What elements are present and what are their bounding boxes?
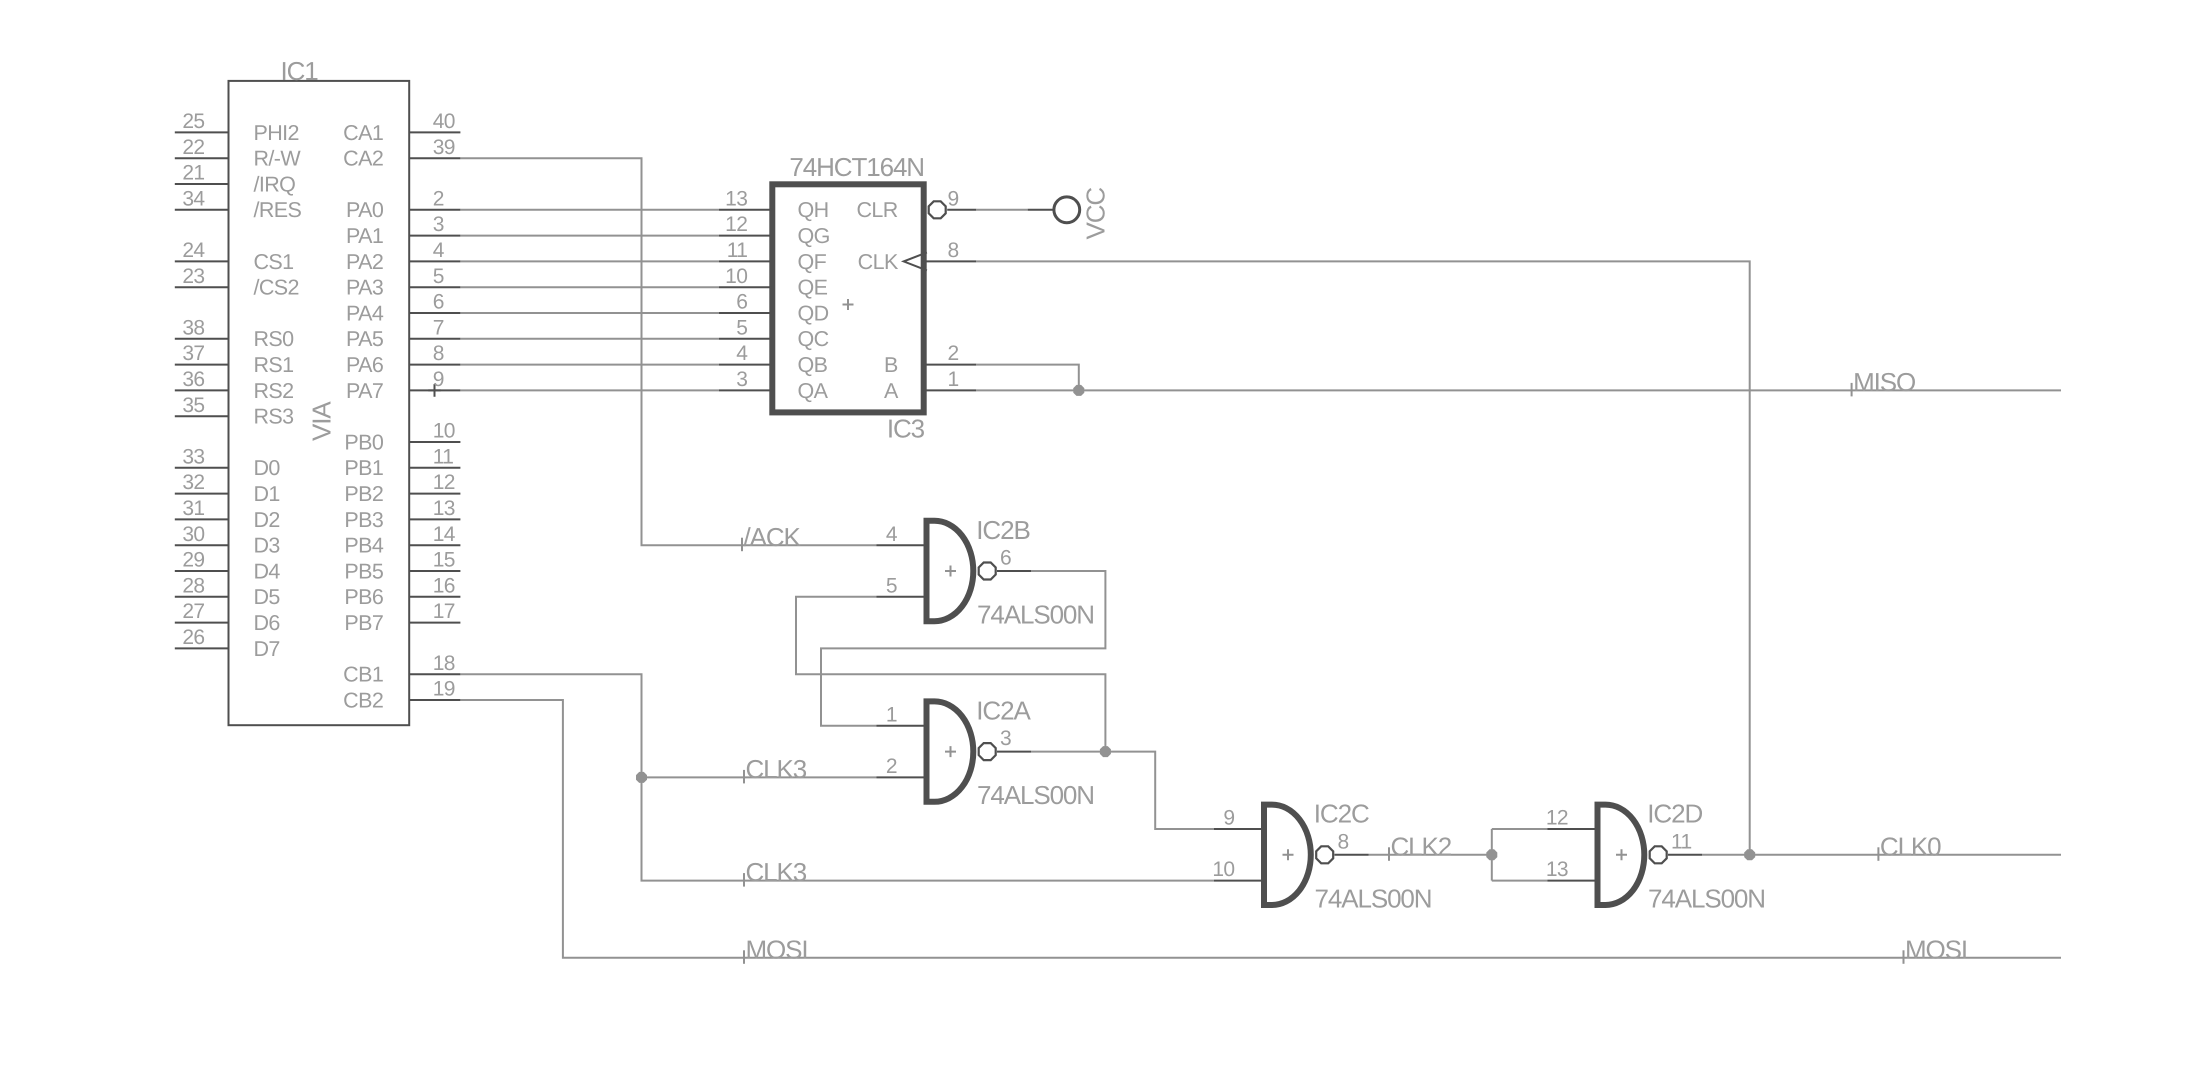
svg-text:QG: QG	[798, 224, 830, 248]
svg-text:CLK0: CLK0	[1880, 831, 1941, 861]
svg-text:QF: QF	[798, 250, 827, 274]
svg-text:/IRQ: /IRQ	[254, 172, 296, 196]
svg-text:CLK: CLK	[858, 250, 899, 274]
svg-text:D7: D7	[254, 637, 280, 661]
svg-text:22: 22	[182, 136, 204, 159]
IC1 pin 33 (D0) stub	[175, 467, 229, 469]
svg-text:6: 6	[736, 291, 747, 314]
wire CLK2 bracket to IC2D pin 12	[1492, 828, 1548, 830]
svg-text:10: 10	[725, 265, 747, 288]
svg-text:31: 31	[182, 497, 204, 520]
svg-text:74ALS00N: 74ALS00N	[1648, 883, 1765, 913]
svg-text:11: 11	[727, 239, 748, 262]
net label MOSI (left) origin tick	[743, 950, 745, 964]
wire net CLK3 from IC1 CB1 down	[460, 674, 1214, 880]
IC1 pin 24 (CS1) stub	[175, 260, 229, 262]
svg-text:QA: QA	[798, 379, 829, 403]
net label CLK3 (IC2C input) origin tick	[743, 873, 745, 887]
IC3 pin 4 (QB) stub	[719, 364, 772, 366]
IC3 pin 3 (QA) stub	[719, 389, 772, 391]
svg-text:CS1: CS1	[254, 250, 294, 274]
IC2C output bubble	[1316, 846, 1333, 863]
IC1 origin cross	[428, 384, 441, 397]
wire net MISO from IC3 pin A to right edge	[976, 389, 2061, 391]
svg-text:D1: D1	[254, 482, 280, 506]
svg-text:11: 11	[433, 445, 454, 468]
IC2D pin 13 stub	[1548, 880, 1598, 882]
wire net PA0 IC1 to IC3	[460, 209, 719, 211]
svg-text:39: 39	[433, 136, 455, 159]
svg-text:CLR: CLR	[856, 198, 897, 222]
svg-text:IC2C: IC2C	[1314, 799, 1369, 829]
svg-text:5: 5	[886, 574, 897, 597]
IC1 pin 40 (CA1) stub	[409, 131, 460, 133]
svg-text:D3: D3	[254, 534, 281, 558]
svg-text:PB7: PB7	[344, 611, 383, 635]
svg-text:4: 4	[433, 239, 445, 262]
IC1 pin 18 (CB1) stub	[409, 673, 460, 675]
svg-text:PA7: PA7	[346, 379, 383, 403]
IC1 pin 17 (PB7) stub	[409, 622, 460, 624]
IC2A output bubble	[979, 743, 996, 760]
IC1 pin 12 (PB2) stub	[409, 493, 460, 495]
svg-text:PA1: PA1	[346, 224, 383, 248]
IC1 pin 36 (RS2) stub	[175, 389, 229, 391]
svg-text:IC2B: IC2B	[976, 515, 1029, 545]
svg-text:27: 27	[182, 600, 204, 623]
svg-text:CA2: CA2	[343, 147, 383, 171]
IC1 pin 25 (PHI2) stub	[175, 131, 229, 133]
IC1 pin 15 (PB5) stub	[409, 570, 460, 572]
wire net PA6 IC1 to IC3	[460, 364, 719, 366]
junction CLK0 at CLK drop	[1744, 849, 1755, 860]
IC3 pin 5 (QC) stub	[719, 338, 772, 340]
svg-text:PB5: PB5	[344, 559, 383, 583]
IC2D pin 11 stub	[1668, 854, 1702, 856]
IC1 pin 6 (PA4) stub	[409, 312, 460, 314]
IC1 pin 9 (PA7) stub	[409, 389, 460, 391]
svg-text:13: 13	[725, 187, 747, 210]
wire net CLK from IC3 CLK pin to IC2D output	[976, 261, 1749, 854]
svg-text:34: 34	[182, 187, 205, 210]
IC2D NAND body	[1598, 805, 1645, 905]
svg-text:10: 10	[433, 420, 455, 443]
svg-text:4: 4	[736, 342, 748, 365]
IC2A pin 3 stub	[997, 751, 1031, 753]
IC1 pin 29 (D4) stub	[175, 570, 229, 572]
IC1 pin 35 (RS3) stub	[175, 415, 229, 417]
svg-text:13: 13	[1546, 858, 1568, 881]
svg-text:36: 36	[182, 368, 204, 391]
IC3 CLK clock wedge	[904, 252, 927, 270]
svg-text:74ALS00N: 74ALS00N	[977, 600, 1094, 630]
svg-text:4: 4	[886, 523, 898, 546]
svg-text:R/-W: R/-W	[254, 147, 302, 171]
IC3 pin 9 CLR inversion bubble	[929, 201, 946, 218]
svg-text:D4: D4	[254, 559, 281, 583]
svg-text:PB0: PB0	[344, 430, 383, 454]
svg-text:PB6: PB6	[344, 585, 383, 609]
svg-text:25: 25	[182, 110, 204, 133]
svg-text:8: 8	[1338, 830, 1349, 853]
IC1 pin 4 (PA2) stub	[409, 260, 460, 262]
IC1 pin 19 (CB2) stub	[409, 699, 460, 701]
svg-text:RS3: RS3	[254, 405, 295, 429]
svg-text:IC3: IC3	[887, 414, 925, 444]
svg-text:CB2: CB2	[343, 688, 383, 712]
IC2C pin 10 stub	[1214, 880, 1264, 882]
wire net CLK2 IC2C output to IC2D inputs	[1369, 854, 1492, 856]
IC3 origin cross	[843, 299, 854, 310]
svg-text:9: 9	[433, 368, 444, 391]
IC1 pin 8 (PA6) stub	[409, 364, 460, 366]
svg-text:/CS2: /CS2	[254, 276, 299, 300]
wire IC2B pin 5 feedback from IC2A output	[796, 597, 1105, 752]
svg-text:PHI2: PHI2	[254, 121, 299, 145]
net label CLK3 (IC2A input) origin tick	[743, 770, 745, 784]
svg-text:17: 17	[433, 600, 455, 623]
svg-text:24: 24	[182, 239, 205, 262]
svg-text:CLK2: CLK2	[1391, 831, 1452, 861]
svg-text:IC2A: IC2A	[976, 695, 1031, 725]
svg-text:16: 16	[433, 574, 455, 597]
svg-text:26: 26	[182, 626, 204, 649]
svg-text:2: 2	[433, 187, 444, 210]
svg-text:9: 9	[1223, 807, 1234, 830]
wire net PA4 IC1 to IC3	[460, 312, 719, 314]
svg-text:11: 11	[1671, 830, 1692, 853]
IC3 pin 11 (QF) stub	[719, 260, 772, 262]
svg-text:5: 5	[736, 316, 747, 339]
svg-text:19: 19	[433, 678, 455, 701]
IC2B pin 6 stub	[997, 570, 1031, 572]
svg-text:IC1: IC1	[281, 56, 319, 86]
IC3 pin 1 (A) stub	[924, 389, 977, 391]
net label CLK2 origin tick	[1388, 847, 1390, 861]
wire net MOSI from IC1 CB2	[460, 700, 2061, 958]
svg-text:2: 2	[886, 755, 897, 778]
svg-text:RS2: RS2	[254, 379, 294, 403]
svg-text:2: 2	[948, 342, 959, 365]
IC1 pin 26 (D7) stub	[175, 647, 229, 649]
IC3 pin 8 (CLK) stub	[924, 260, 977, 262]
svg-text:6: 6	[1000, 547, 1011, 570]
wire net PA3 IC1 to IC3	[460, 286, 719, 288]
svg-text:23: 23	[182, 265, 204, 288]
net label MOSI (right) origin tick	[1903, 950, 1905, 964]
svg-text:IC2D: IC2D	[1647, 799, 1702, 829]
svg-text:PB3: PB3	[344, 508, 383, 532]
IC1 pin 5 (PA3) stub	[409, 286, 460, 288]
svg-text:32: 32	[182, 471, 204, 494]
svg-text:PA0: PA0	[346, 198, 384, 222]
IC1 pin 21 (/IRQ) stub	[175, 183, 229, 185]
IC3 pin 6 (QD) stub	[719, 312, 772, 314]
net label CLK0 origin tick	[1877, 847, 1879, 861]
wire net PA2 IC1 to IC3	[460, 260, 719, 262]
VCC symbol pin	[1028, 209, 1053, 211]
IC3 pin 2 (B) stub	[924, 364, 977, 366]
IC1 pin 37 (RS1) stub	[175, 364, 229, 366]
IC1 pin 13 (PB3) stub	[409, 518, 460, 520]
IC2A origin cross	[945, 746, 956, 757]
svg-text:29: 29	[182, 549, 204, 572]
svg-text:QE: QE	[798, 276, 828, 300]
IC1 pin 3 (PA1) stub	[409, 235, 460, 237]
IC1 pin 38 (RS0) stub	[175, 338, 229, 340]
svg-text:33: 33	[182, 445, 204, 468]
wire net CLK0 from IC2D output to right edge	[1702, 854, 2061, 856]
IC1 pin 39 (CA2) stub	[409, 157, 460, 159]
svg-text:35: 35	[182, 394, 204, 417]
svg-text:5: 5	[433, 265, 444, 288]
svg-text:PB2: PB2	[344, 482, 383, 506]
wire CLR to VCC	[976, 209, 1027, 211]
svg-text:/RES: /RES	[254, 198, 302, 222]
IC1 pin 11 (PB1) stub	[409, 467, 460, 469]
net label /ACK origin tick	[741, 538, 743, 552]
wire IC2A output to IC2C pin 9	[1031, 752, 1214, 829]
VCC circle	[1054, 197, 1080, 223]
IC1 pin 7 (PA5) stub	[409, 338, 460, 340]
svg-text:PA2: PA2	[346, 250, 383, 274]
IC2D origin cross	[1616, 849, 1627, 860]
IC3 pin 12 (QG) stub	[719, 235, 772, 237]
IC2C pin 8 stub	[1335, 854, 1369, 856]
svg-text:QH: QH	[798, 198, 829, 222]
IC1 pin 32 (D1) stub	[175, 493, 229, 495]
svg-text:1: 1	[886, 703, 897, 726]
IC2A pin 2 stub	[877, 776, 927, 778]
IC2A pin 1 stub	[877, 725, 927, 727]
IC1 pin 14 (PB4) stub	[409, 544, 460, 546]
svg-text:D5: D5	[254, 585, 281, 609]
svg-text:12: 12	[1546, 807, 1568, 830]
svg-text:MOSI: MOSI	[1905, 934, 1967, 964]
IC1 pin 10 (PB0) stub	[409, 441, 460, 443]
wire net PA7 IC1 to IC3	[460, 389, 719, 391]
IC1 pin 34 (/RES) stub	[175, 209, 229, 211]
svg-text:14: 14	[433, 523, 456, 546]
svg-text:40: 40	[433, 110, 455, 133]
junction CLK2	[1486, 849, 1497, 860]
svg-text:15: 15	[433, 549, 455, 572]
svg-text:12: 12	[433, 471, 455, 494]
svg-text:21: 21	[182, 162, 204, 185]
svg-text:RS0: RS0	[254, 327, 295, 351]
svg-text:PA6: PA6	[346, 353, 384, 377]
IC3 pin 9 (CLR) stub	[947, 209, 976, 211]
svg-text:QC: QC	[798, 327, 829, 351]
IC3 pin 13 (QH) stub	[719, 209, 772, 211]
svg-text:CLK3: CLK3	[746, 857, 807, 887]
svg-text:7: 7	[433, 316, 444, 339]
IC1 pin 31 (D2) stub	[175, 518, 229, 520]
svg-text:D0: D0	[254, 456, 281, 480]
IC2D output bubble	[1650, 846, 1667, 863]
IC3 pin 10 (QE) stub	[719, 286, 772, 288]
svg-text:12: 12	[725, 213, 747, 236]
svg-text:PA5: PA5	[346, 327, 384, 351]
svg-text:PB4: PB4	[344, 534, 383, 558]
IC1 pin 28 (D5) stub	[175, 596, 229, 598]
svg-text:10: 10	[1212, 858, 1234, 881]
svg-text:38: 38	[182, 316, 204, 339]
net label MISO origin tick	[1851, 383, 1853, 397]
IC2B output bubble	[979, 563, 996, 580]
svg-text:9: 9	[948, 187, 959, 210]
IC2B NAND body	[927, 521, 974, 621]
svg-text:D2: D2	[254, 508, 280, 532]
svg-text:D6: D6	[254, 611, 281, 635]
IC3 body outline	[772, 184, 923, 412]
IC2A NAND body	[927, 701, 974, 801]
svg-text:8: 8	[948, 239, 959, 262]
svg-text:1: 1	[948, 368, 959, 391]
IC2D pin 12 stub	[1548, 828, 1598, 830]
wire net MISO from IC3 pin B	[976, 365, 1079, 391]
svg-text:6: 6	[433, 291, 444, 314]
svg-text:B: B	[884, 353, 898, 377]
svg-text:VCC: VCC	[1080, 188, 1110, 240]
IC1 pin 16 (PB6) stub	[409, 596, 460, 598]
svg-text:74HCT164N: 74HCT164N	[789, 152, 924, 182]
svg-text:QB: QB	[798, 353, 828, 377]
wire IC2B output feedback to IC2A pin 1	[821, 571, 1105, 726]
svg-text:74ALS00N: 74ALS00N	[1315, 883, 1432, 913]
IC2C pin 9 stub	[1214, 828, 1264, 830]
IC1 pin 27 (D6) stub	[175, 622, 229, 624]
svg-text:/ACK: /ACK	[744, 522, 802, 552]
svg-text:30: 30	[182, 523, 204, 546]
svg-text:CB1: CB1	[343, 663, 383, 687]
IC2B pin 4 stub	[877, 544, 927, 546]
svg-text:3: 3	[433, 213, 444, 236]
IC1 pin 2 (PA0) stub	[409, 209, 460, 211]
svg-text:8: 8	[433, 342, 444, 365]
junction CLK3 branch	[636, 772, 647, 783]
wire net PA1 IC1 to IC3	[460, 235, 719, 237]
junction IC2A output feedback	[1100, 746, 1111, 757]
svg-text:QD: QD	[798, 301, 829, 325]
svg-text:28: 28	[182, 574, 204, 597]
svg-text:PA3: PA3	[346, 276, 384, 300]
svg-text:3: 3	[1000, 727, 1011, 750]
IC1 pin 23 (/CS2) stub	[175, 286, 229, 288]
IC1 pin 30 (D3) stub	[175, 544, 229, 546]
svg-text:RS1: RS1	[254, 353, 294, 377]
IC1 pin 22 (R/-W) stub	[175, 157, 229, 159]
IC1 body outline	[229, 81, 410, 725]
svg-text:A: A	[884, 379, 899, 403]
svg-text:MISO: MISO	[1853, 367, 1915, 397]
junction MISO at pin B drop	[1073, 385, 1084, 396]
wire CLK2 bracket to IC2D pin 13	[1492, 880, 1548, 882]
IC2C NAND body	[1264, 805, 1311, 905]
svg-text:74ALS00N: 74ALS00N	[977, 780, 1094, 810]
svg-text:18: 18	[433, 652, 455, 675]
svg-text:PB1: PB1	[344, 456, 383, 480]
wire CLK2 input bracket vertical	[1491, 829, 1493, 881]
wire net /ACK from IC1 CA2 to IC2B pin 4	[460, 158, 876, 545]
svg-text:PA4: PA4	[346, 301, 384, 325]
svg-text:3: 3	[736, 368, 747, 391]
svg-text:13: 13	[433, 497, 455, 520]
svg-text:CLK3: CLK3	[746, 754, 807, 784]
svg-text:MOSI: MOSI	[746, 934, 808, 964]
wire net CLK3 branch to IC2A pin 2	[642, 776, 877, 778]
IC2C origin cross	[1283, 849, 1294, 860]
IC2B pin 5 stub	[877, 596, 927, 598]
svg-text:CA1: CA1	[343, 121, 383, 145]
IC2B origin cross	[945, 566, 956, 577]
svg-text:VIA: VIA	[307, 401, 337, 441]
wire net PA5 IC1 to IC3	[460, 338, 719, 340]
svg-text:37: 37	[182, 342, 204, 365]
